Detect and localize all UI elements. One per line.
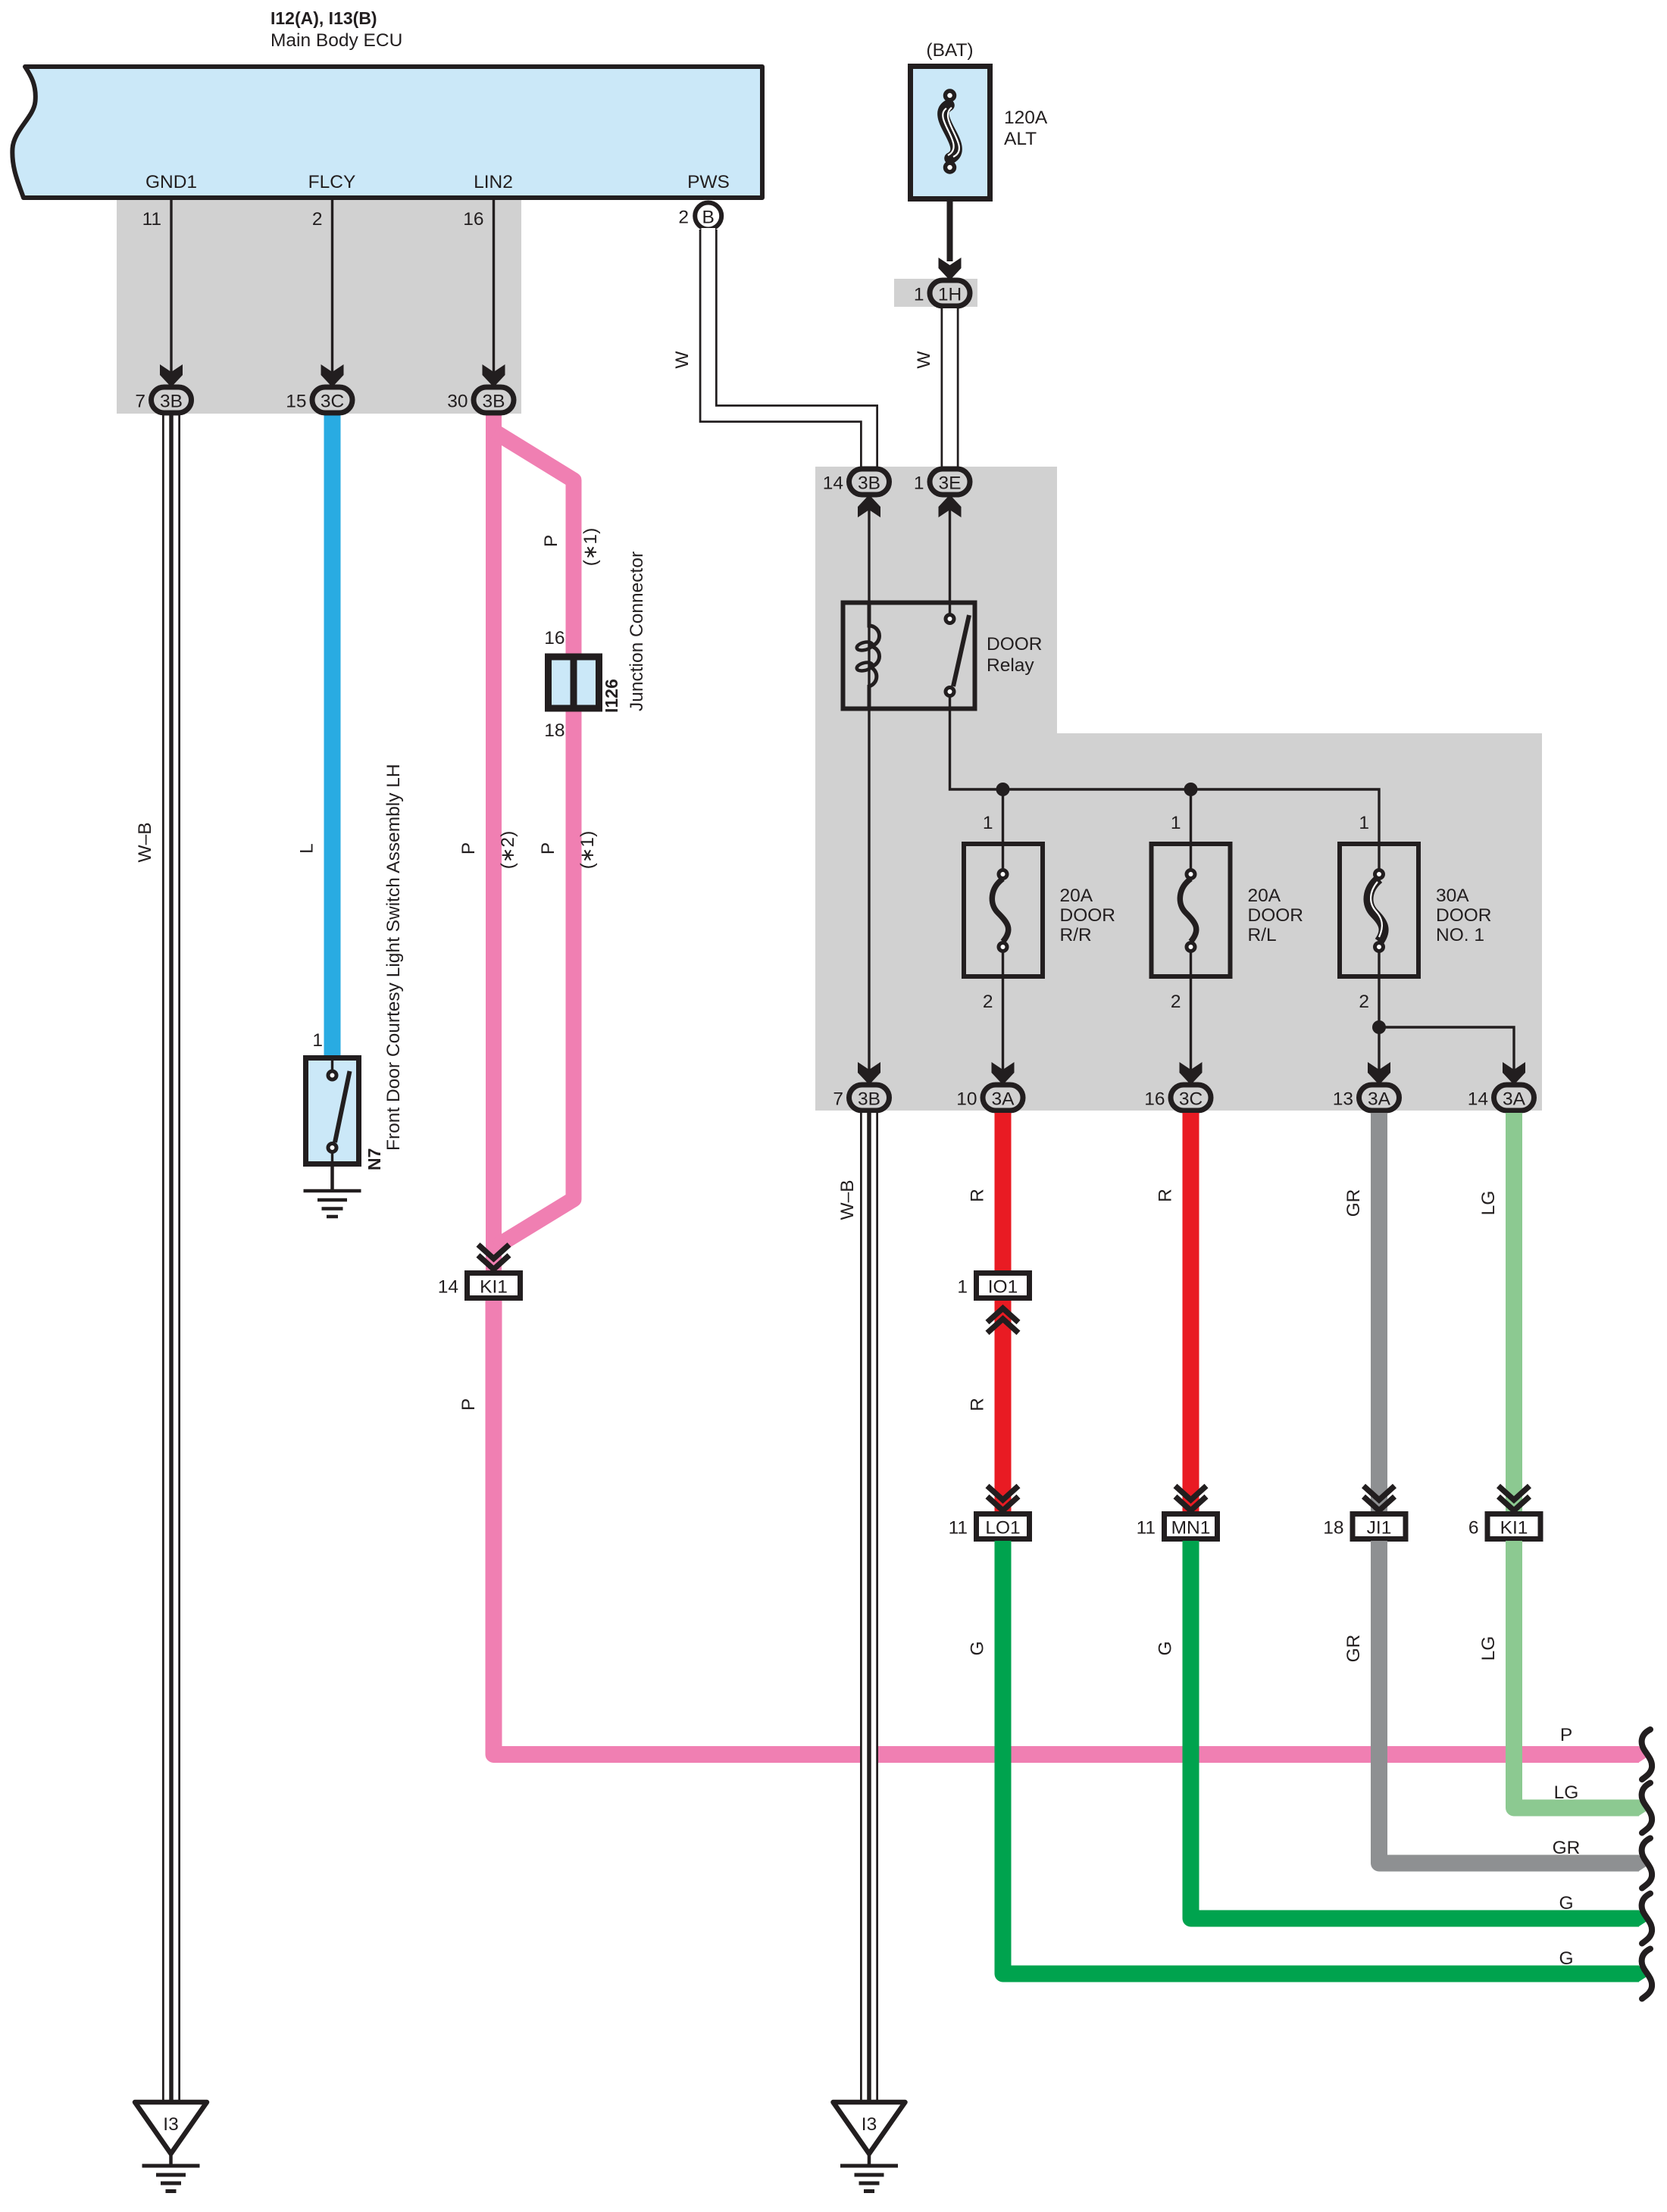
- svg-text:W: W: [914, 351, 934, 369]
- svg-text:FLCY: FLCY: [308, 172, 356, 192]
- node gray-connector-region-ecu: [117, 200, 521, 414]
- switch N7 Front Door Courtesy Light Switch Assembly LH: [306, 764, 405, 1170]
- chevron double into JI1: [1364, 1486, 1395, 1511]
- svg-text:G: G: [1559, 1893, 1573, 1914]
- wire LG run to right edge: [1478, 1541, 1639, 1808]
- arrow down into 3A(13): [1368, 1062, 1390, 1085]
- wire LIN2 pin16: [463, 200, 493, 392]
- svg-text:2: 2: [312, 209, 323, 230]
- svg-text:14: 14: [823, 473, 843, 494]
- svg-text:3B: 3B: [858, 473, 880, 494]
- svg-text:R: R: [968, 1189, 988, 1202]
- node gray-band-1H: [894, 279, 977, 307]
- svg-text:30A: 30A: [1436, 886, 1469, 906]
- svg-text:R/R: R/R: [1060, 925, 1092, 945]
- relay DOOR Relay box: [843, 603, 1043, 709]
- fuse R/L pin2 wire down: [1171, 976, 1191, 1082]
- svg-text:3C: 3C: [1179, 1089, 1203, 1110]
- svg-text:11: 11: [1137, 1518, 1156, 1539]
- arrow down into 3A(10): [992, 1062, 1015, 1085]
- wire tip chamfer: [1638, 1800, 1651, 1817]
- svg-text:7: 7: [135, 392, 145, 412]
- fuse 20A DOOR R/L: [1152, 844, 1304, 976]
- connector box KI1 pin6: [1468, 1514, 1540, 1539]
- svg-text:11: 11: [142, 209, 161, 230]
- ECU U-I12 Main Body ECU box: [12, 8, 762, 198]
- svg-text:Main Body ECU: Main Body ECU: [271, 30, 402, 51]
- svg-text:3B: 3B: [858, 1089, 880, 1110]
- svg-text:GR: GR: [1343, 1189, 1364, 1217]
- svg-text:N7: N7: [364, 1148, 384, 1170]
- svg-text:2: 2: [983, 992, 993, 1012]
- svg-text:GR: GR: [1553, 1838, 1581, 1858]
- wire tip chamfer: [1638, 1911, 1651, 1927]
- svg-text:16: 16: [544, 628, 565, 648]
- svg-text:R: R: [1156, 1189, 1176, 1202]
- junction dot fuse R/L: [1184, 783, 1198, 796]
- svg-text:3B: 3B: [483, 392, 505, 412]
- relay coil: [856, 602, 880, 709]
- wire break squiggle LG: [1642, 1783, 1652, 1833]
- svg-text:DOOR: DOOR: [1436, 905, 1492, 926]
- svg-text:JI1: JI1: [1367, 1518, 1392, 1539]
- fuse 30A DOOR NO.1: [1340, 844, 1492, 976]
- wire R red 3C(16) to MN1: [1156, 1113, 1191, 1511]
- svg-text:3A: 3A: [1368, 1089, 1391, 1110]
- chevron double into KI1(6): [1499, 1486, 1530, 1511]
- connector oval 1H pin1: [914, 280, 970, 306]
- wire FLCY pin2: [312, 200, 333, 392]
- svg-text:14: 14: [438, 1277, 458, 1298]
- svg-text:(∗1): (∗1): [577, 831, 598, 869]
- svg-text:PWS: PWS: [687, 172, 730, 192]
- svg-text:G: G: [1559, 1948, 1573, 1969]
- svg-text:3A: 3A: [992, 1089, 1015, 1110]
- wire tip chamfer: [1638, 1746, 1651, 1763]
- chevron double into MN1: [1175, 1486, 1206, 1511]
- arrow down into 3B(7): [160, 364, 183, 387]
- wire to fuse R/R pin1: [983, 789, 1003, 843]
- junction dot fuse R/R: [996, 783, 1010, 796]
- connector oval 3B pin7 bottom: [833, 1085, 889, 1111]
- svg-text:DOOR: DOOR: [1248, 905, 1304, 926]
- wire W-B left (GND1 to ground I3): [135, 415, 171, 2102]
- svg-text:KI1: KI1: [1500, 1518, 1528, 1539]
- wire relay switch output bus: [950, 709, 1380, 843]
- svg-text:11: 11: [949, 1518, 968, 1539]
- svg-text:Junction Connector: Junction Connector: [627, 551, 647, 711]
- wire tip chamfer: [1638, 1855, 1651, 1872]
- svg-text:I12(A), I13(B): I12(A), I13(B): [271, 8, 377, 28]
- svg-text:LG: LG: [1478, 1191, 1499, 1216]
- connector box MN1 pin11: [1137, 1514, 1218, 1539]
- svg-text:G: G: [968, 1641, 988, 1655]
- svg-text:13: 13: [1333, 1089, 1353, 1110]
- svg-text:P: P: [458, 842, 479, 854]
- chevron double into LO1: [987, 1486, 1018, 1511]
- wire break squiggle G1: [1642, 1894, 1652, 1944]
- svg-text:16: 16: [1144, 1089, 1165, 1110]
- svg-text:(BAT): (BAT): [926, 40, 973, 61]
- relay switch contacts and blade: [946, 615, 969, 710]
- wire P pink branch (*1) via junction connector: [495, 432, 601, 1247]
- svg-text:P: P: [1560, 1725, 1572, 1745]
- wire coil side 3B to relay to 3B(7): [868, 497, 870, 1082]
- svg-text:7: 7: [833, 1089, 843, 1110]
- wire switch side 3E to relay: [949, 497, 951, 614]
- fusible link symbol 120A: [943, 91, 959, 172]
- wire break squiggle GR: [1642, 1839, 1652, 1889]
- svg-text:MN1: MN1: [1171, 1518, 1211, 1539]
- fuse 120A ALT box (BAT): [911, 40, 1048, 199]
- wire to fuse R/L pin1: [1171, 789, 1191, 843]
- svg-text:LIN2: LIN2: [474, 172, 513, 192]
- svg-text:18: 18: [1323, 1518, 1343, 1539]
- wire W white 1H to 3E: [914, 308, 950, 468]
- svg-text:B: B: [702, 208, 715, 228]
- svg-text:20A: 20A: [1060, 886, 1093, 906]
- svg-text:NO. 1: NO. 1: [1436, 925, 1484, 945]
- svg-text:W: W: [672, 351, 693, 369]
- node gray-region-relay-fuses: [815, 467, 1542, 1111]
- svg-text:6: 6: [1468, 1518, 1479, 1539]
- svg-text:2: 2: [1171, 992, 1181, 1012]
- wire break squiggle P: [1642, 1729, 1652, 1779]
- svg-text:30: 30: [447, 392, 468, 412]
- svg-text:3E: 3E: [939, 473, 962, 494]
- svg-text:ALT: ALT: [1004, 129, 1037, 149]
- chevron double into KI1(14): [478, 1245, 509, 1270]
- svg-text:DOOR: DOOR: [1060, 905, 1116, 926]
- connector oval 3B pin30: [447, 387, 514, 413]
- svg-text:1: 1: [914, 473, 924, 494]
- connector oval 3A pin13: [1333, 1085, 1400, 1111]
- svg-text:10: 10: [956, 1089, 977, 1110]
- connector oval 3E pin1: [914, 469, 970, 495]
- connector circle B pin2 of PWS: [678, 203, 721, 230]
- svg-text:3C: 3C: [321, 392, 344, 412]
- svg-text:P: P: [541, 535, 561, 547]
- svg-text:I3: I3: [862, 2114, 877, 2135]
- svg-text:1H: 1H: [938, 285, 962, 305]
- arrow down into 3C(16): [1180, 1062, 1203, 1085]
- fuse R/R pin2 wire down: [983, 976, 1003, 1082]
- wire GND1 pin11: [142, 200, 171, 392]
- svg-text:1: 1: [1359, 813, 1369, 833]
- wire G green MN1 run to right edge: [1156, 1541, 1640, 1919]
- svg-text:20A: 20A: [1248, 886, 1281, 906]
- wire P pink LIN2 main branch: [458, 415, 518, 1273]
- svg-text:DOOR: DOOR: [987, 634, 1043, 655]
- wire R red 3A(10) to IO1: [968, 1113, 1003, 1273]
- wire GR gray 3A(13) to JI1: [1343, 1113, 1379, 1511]
- svg-text:2: 2: [1359, 992, 1369, 1012]
- svg-text:GND1: GND1: [145, 172, 197, 192]
- svg-text:R: R: [968, 1398, 988, 1411]
- svg-text:Front Door Courtesy Light Swit: Front Door Courtesy Light Switch Assembl…: [383, 764, 404, 1151]
- svg-text:I3: I3: [163, 2114, 178, 2135]
- arrow up into 3E(1): [939, 495, 962, 517]
- svg-text:LG: LG: [1554, 1782, 1579, 1803]
- connector oval 3A pin14: [1468, 1085, 1534, 1111]
- arrow down into 3C(15): [321, 364, 344, 387]
- arrow down into 3B(7) right: [858, 1062, 880, 1085]
- svg-text:(∗1): (∗1): [580, 528, 601, 566]
- junction connector I126: [544, 551, 647, 741]
- wire LG light green 3A(14) to KI1: [1478, 1113, 1514, 1511]
- fuse 20A DOOR R/R: [964, 844, 1115, 976]
- svg-text:I126: I126: [602, 679, 621, 713]
- svg-text:KI1: KI1: [480, 1277, 508, 1298]
- svg-text:G: G: [1156, 1641, 1176, 1655]
- svg-text:P: P: [538, 842, 558, 854]
- svg-text:LG: LG: [1478, 1636, 1499, 1661]
- wire P pink below KI1 to horizontal run: [458, 1301, 1639, 1754]
- svg-text:18: 18: [544, 720, 565, 741]
- svg-text:LO1: LO1: [985, 1518, 1020, 1539]
- connector oval 3A pin10: [956, 1085, 1023, 1111]
- svg-text:P: P: [458, 1398, 479, 1411]
- wire W white from PWS B to 3B(14): [672, 228, 869, 468]
- wire end labels at right: [1553, 1725, 1581, 1969]
- svg-text:120A: 120A: [1004, 108, 1048, 128]
- connector box IO1 pin1: [957, 1273, 1029, 1298]
- wire R red IO1 to LO1: [968, 1301, 1003, 1511]
- svg-text:Relay: Relay: [987, 655, 1034, 676]
- junction dot below fuse NO.1: [1372, 1020, 1386, 1034]
- svg-text:1: 1: [983, 813, 993, 833]
- svg-text:15: 15: [286, 392, 306, 412]
- svg-text:2: 2: [678, 208, 689, 228]
- svg-text:3B: 3B: [160, 392, 183, 412]
- svg-text:1: 1: [312, 1030, 323, 1051]
- arrow down into 3B(30): [483, 364, 505, 387]
- svg-text:IO1: IO1: [988, 1277, 1018, 1298]
- svg-text:1: 1: [1171, 813, 1181, 833]
- wire tip chamfer: [1638, 1966, 1651, 1982]
- svg-text:R/L: R/L: [1248, 925, 1277, 945]
- svg-text:1: 1: [957, 1277, 968, 1298]
- svg-text:(∗2): (∗2): [498, 831, 518, 869]
- svg-text:W–B: W–B: [837, 1179, 858, 1220]
- connector box JI1 pin18: [1323, 1514, 1406, 1539]
- connector oval 3C pin16: [1144, 1085, 1211, 1111]
- wire W-B right (3B7 to ground I3): [837, 1113, 869, 2102]
- connector oval 3C pin15: [286, 387, 352, 413]
- fuse NO.1 pin2 wire down with branch: [1359, 976, 1514, 1082]
- connector box KI1 pin14: [438, 1273, 521, 1298]
- svg-text:14: 14: [1468, 1089, 1488, 1110]
- wire L blue FLCY to N7: [297, 415, 333, 1058]
- ground I3 right: [833, 2102, 905, 2192]
- svg-text:3A: 3A: [1503, 1089, 1526, 1110]
- svg-text:16: 16: [463, 209, 483, 230]
- arrow down into 1H: [939, 258, 962, 280]
- wire GR run to right edge: [1343, 1541, 1639, 1864]
- wire battery feed ALT to 1H: [947, 202, 953, 261]
- connector oval 3B pin7: [135, 387, 191, 413]
- arrow up into 3B(14): [858, 495, 880, 517]
- ground under N7: [304, 1167, 361, 1217]
- connector oval 3B pin14: [823, 469, 890, 495]
- chevron double up below IO1: [987, 1308, 1018, 1333]
- wire G green LO1 run to right edge: [968, 1541, 1640, 1974]
- arrow down into 3A(14): [1503, 1062, 1525, 1085]
- ground I3 left: [135, 2102, 207, 2192]
- svg-text:1: 1: [914, 285, 924, 305]
- wire break squiggle G2: [1642, 1949, 1652, 1999]
- svg-text:GR: GR: [1343, 1635, 1364, 1663]
- svg-text:W–B: W–B: [135, 822, 155, 862]
- connector box LO1 pin11: [949, 1514, 1030, 1539]
- svg-text:L: L: [297, 843, 317, 854]
